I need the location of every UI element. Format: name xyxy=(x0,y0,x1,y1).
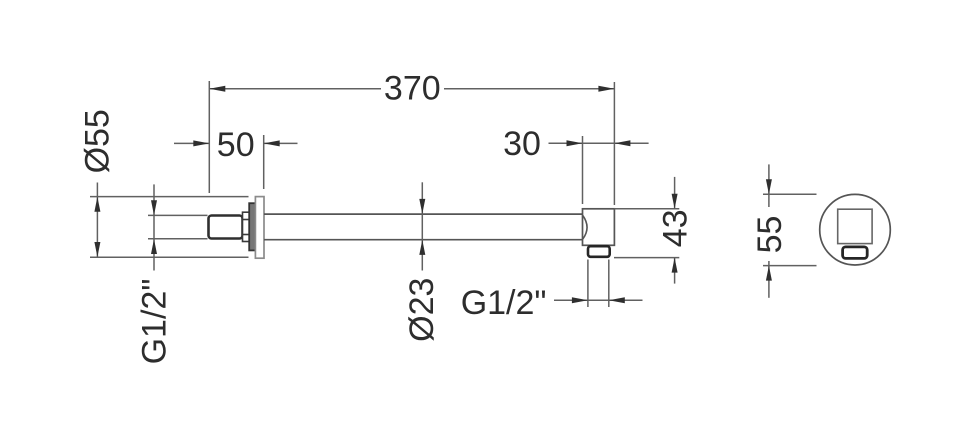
arrow G1/2 outlet right (points left) xyxy=(609,297,625,303)
dim 370 extension line left xyxy=(208,81,210,193)
arrow O23 bottom (points up) xyxy=(419,240,425,255)
dim 43: top extension line xyxy=(614,208,679,210)
dim O55: top extension line xyxy=(90,196,249,198)
arrow 30 right (points left) xyxy=(614,140,630,146)
dim 50 left arrow stem xyxy=(174,142,209,144)
arrow 30 left (points right) xyxy=(567,140,583,146)
dim 50 right arrow stem xyxy=(264,142,298,144)
dim 30 line xyxy=(549,142,649,144)
wall flange plate xyxy=(255,197,264,259)
end view outlet xyxy=(843,247,868,259)
outlet nipple G1/2 xyxy=(588,246,610,257)
svg-text:30: 30 xyxy=(503,125,541,163)
svg-text:370: 370 xyxy=(384,70,441,108)
dim 370 line left segment xyxy=(209,88,381,90)
arrow O55 top (points up) xyxy=(94,197,100,212)
arrow G1/2 outlet left (points right) xyxy=(572,297,588,303)
dim O55: vertical line xyxy=(96,183,98,258)
dim G1/2 outlet: right extension line xyxy=(608,260,610,308)
arm tube bottom line xyxy=(264,239,583,241)
arrow 55 bottom (points up) xyxy=(766,266,772,281)
escutcheon dark strip xyxy=(249,203,255,250)
svg-text:50: 50 xyxy=(217,126,255,164)
arrow 43 bottom (points up) xyxy=(672,258,678,273)
arrow 50 right (points left) xyxy=(264,140,280,146)
dim 370 line right segment xyxy=(444,88,614,90)
arm tube top line xyxy=(264,213,583,215)
dim G1/2 outlet: left extension line xyxy=(587,260,589,308)
arrow 370 left xyxy=(209,86,225,92)
arrow 50 left (points right) xyxy=(193,140,209,146)
dim 43: vertical line bottom segment xyxy=(674,258,676,284)
svg-text:43: 43 xyxy=(657,209,695,247)
dim 370 extension line right xyxy=(613,82,615,205)
dim G1/2 left: top extension line xyxy=(148,214,208,216)
arrow 43 top (points down) xyxy=(672,194,678,209)
arrow 55 top (points down) xyxy=(766,179,772,194)
dim 43: vertical line top segment xyxy=(674,177,676,209)
svg-text:Ø55: Ø55 xyxy=(79,109,117,173)
end view circle (flange) xyxy=(820,194,891,265)
arrow 370 right xyxy=(598,86,614,92)
dim G1/2 left: bottom extension line xyxy=(148,238,208,240)
elbow inner fillet xyxy=(583,216,587,240)
dim 50 right extension line xyxy=(263,135,265,189)
dim 43: bottom extension line xyxy=(614,257,679,259)
arrow G1/2 left top (points down) xyxy=(151,200,157,215)
dim G1/2 left: vertical line xyxy=(153,184,155,270)
locknut collar rings xyxy=(243,212,250,241)
svg-text:G1/2": G1/2" xyxy=(461,284,547,322)
dim 55: bottom extension line xyxy=(763,265,817,267)
elbow block xyxy=(583,209,615,246)
svg-text:Ø23: Ø23 xyxy=(403,278,441,342)
arrowheads xyxy=(94,86,772,303)
svg-text:G1/2": G1/2" xyxy=(136,279,174,365)
dim 55: top extension line xyxy=(763,193,817,195)
end view square (arm section) xyxy=(838,209,872,243)
dim O55: bottom extension line xyxy=(90,256,249,258)
dim 30 left extension line xyxy=(582,136,584,204)
wall thread nipple G1/2 xyxy=(209,216,243,239)
arrow O55 bottom (points down) xyxy=(94,242,100,257)
arrow O23 top (points down) xyxy=(419,199,425,214)
dim O23 vertical line xyxy=(421,182,423,270)
dim 55 end view: vertical line bottom segment xyxy=(768,261,770,298)
dim G1/2 outlet: dim line xyxy=(554,299,643,301)
svg-text:55: 55 xyxy=(751,216,789,254)
arrow G1/2 left bottom (points up) xyxy=(151,239,157,254)
dim 55 end view: vertical line top segment xyxy=(768,164,770,207)
